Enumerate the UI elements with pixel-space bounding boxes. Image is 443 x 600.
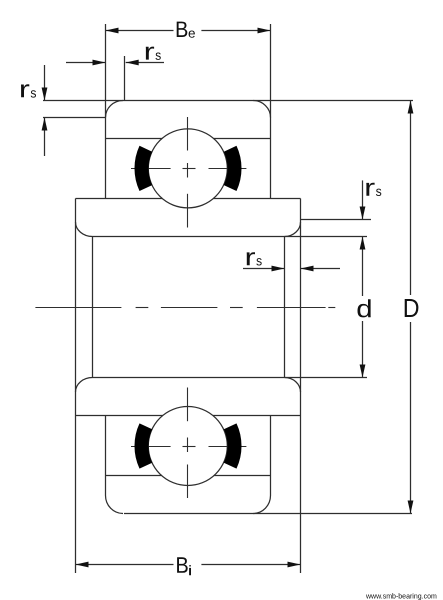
- bore top line + d extension: [93, 236, 368, 238]
- arrow rs middle pointing right: [272, 266, 285, 272]
- arrow D up: [408, 101, 414, 114]
- arrow rs left down: [42, 88, 48, 101]
- ball bottom: [148, 407, 227, 486]
- extension line chamfer bottom left: [43, 117, 106, 119]
- outer ring top chamfer arc TL: [106, 101, 124, 118]
- inner ring bottom face line: [76, 415, 164, 417]
- outer ring top section left face: [105, 198, 107, 200]
- seal top right (black): [224, 146, 242, 191]
- label rs middle: [247, 252, 255, 265]
- dimension line D: [410, 101, 412, 296]
- outer ring bottom left face: [105, 416, 107, 496]
- inner ring left face + Bi extension: [75, 199, 77, 574]
- dimension line d: [362, 237, 364, 297]
- arrow Be right: [258, 28, 271, 34]
- bore bottom line + d extension: [93, 377, 368, 379]
- label Be: [177, 22, 188, 37]
- label rs top: [146, 47, 154, 60]
- rs right dimension vertical: [362, 180, 364, 219]
- outer ring bottom chamfer arc BL: [106, 496, 124, 514]
- arrow Be left: [106, 28, 119, 34]
- inner ring chamfer arc TL: [76, 222, 93, 237]
- label rs left: [21, 84, 29, 97]
- arrow D down: [408, 501, 414, 514]
- dimension line rs left vertical: [44, 65, 46, 101]
- extension line chamfer edge top: [124, 56, 126, 101]
- label d: [358, 299, 371, 317]
- arrow rs middle pointing left: [301, 266, 314, 272]
- dimension line rs middle: [243, 268, 285, 270]
- seal bottom right (black): [224, 423, 242, 468]
- label rs right: [366, 183, 374, 196]
- outer ring bottom chamfer arc BR: [253, 496, 270, 514]
- outer ring top chamfer arc TR: [253, 101, 270, 118]
- centerline axis horizontal: [35, 307, 335, 309]
- chamfer edge line left: [92, 237, 94, 378]
- seal bottom left (black): [134, 423, 152, 468]
- dimension line Be: [106, 30, 174, 32]
- ball top: [148, 129, 227, 208]
- label D: [405, 299, 419, 317]
- centerline ball top vertical: [187, 117, 189, 228]
- centerline ball top horizontal: [131, 168, 246, 170]
- inner ring top face line: [76, 198, 163, 200]
- inner ring chamfer arc BL: [76, 378, 93, 393]
- extension line OD bottom: [124, 513, 412, 515]
- arrow rs left up: [42, 118, 48, 131]
- arrow Bi right: [288, 562, 301, 568]
- arrow rs top pointing left: [126, 60, 139, 66]
- inner ring chamfer arc TR: [285, 222, 301, 237]
- rs right extension line: [301, 219, 372, 221]
- extension line Be left: [105, 24, 107, 199]
- label Bi: [177, 557, 188, 573]
- extension line OD top: [43, 100, 413, 102]
- inner ring chamfer arc BR: [285, 378, 301, 393]
- arrow rs top pointing right: [93, 60, 106, 66]
- centerline ball bottom horizontal: [131, 446, 246, 448]
- inner ring right face + Bi extension: [300, 199, 302, 574]
- outer ring bottom right face: [270, 416, 272, 496]
- arrow Bi left: [76, 562, 89, 568]
- dimension line Bi: [76, 564, 174, 566]
- chamfer edge line right: [284, 237, 286, 378]
- centerline ball bottom vertical: [187, 388, 189, 499]
- extension line Be right: [270, 24, 272, 199]
- arrow d down: [360, 365, 366, 378]
- dimension line rs top: [66, 62, 106, 64]
- arrow rs right down: [360, 207, 366, 220]
- svg-text:www.smb-bearing.com: www.smb-bearing.com: [365, 594, 437, 600]
- outer ring top bore line: [106, 138, 163, 140]
- seal top left (black): [134, 146, 152, 191]
- arrow d up: [360, 237, 366, 250]
- outer ring bottom bore line: [106, 475, 163, 477]
